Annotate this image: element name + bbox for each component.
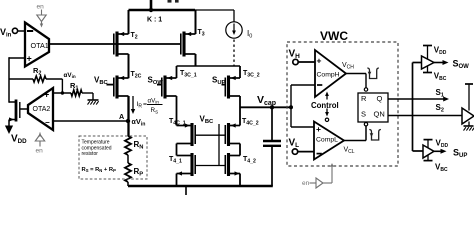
svg-text:=: =	[143, 101, 147, 108]
svg-text:en: en	[37, 4, 45, 11]
svg-text:VWC: VWC	[320, 29, 348, 43]
svg-text:R: R	[361, 94, 367, 103]
svg-text:S: S	[361, 110, 366, 119]
svg-text:OTA1: OTA1	[31, 41, 49, 50]
svg-text:CompH: CompH	[317, 72, 340, 79]
svg-text:en: en	[302, 180, 310, 187]
svg-text:RS = RN + RP: RS = RN + RP	[82, 167, 117, 173]
svg-text:Control: Control	[311, 101, 339, 110]
svg-text:+: +	[317, 56, 322, 66]
svg-text:CompL: CompL	[316, 137, 338, 144]
svg-text:resistor: resistor	[82, 151, 99, 157]
svg-text:QN: QN	[374, 110, 385, 119]
svg-text:+: +	[27, 54, 32, 64]
svg-text:OTA2: OTA2	[33, 106, 51, 113]
svg-text:+: +	[316, 124, 321, 134]
svg-text:K : 1: K : 1	[147, 17, 162, 24]
svg-text:+: +	[44, 90, 49, 100]
svg-text:Q: Q	[377, 94, 383, 103]
svg-text:−: −	[45, 118, 50, 127]
svg-text:A: A	[119, 112, 124, 121]
svg-text:en: en	[36, 148, 44, 155]
